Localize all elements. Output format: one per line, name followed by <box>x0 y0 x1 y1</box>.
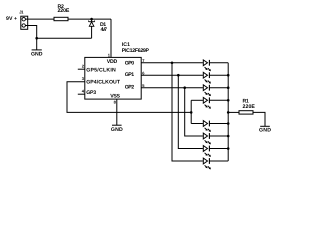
svg-text:GP5/CLKIN: GP5/CLKIN <box>86 67 116 73</box>
svg-text:VSS: VSS <box>110 94 120 100</box>
svg-text:220E: 220E <box>243 104 256 110</box>
svg-text:GND: GND <box>111 127 123 133</box>
svg-text:9V +: 9V + <box>6 16 17 22</box>
svg-text:4V7: 4V7 <box>101 27 108 33</box>
svg-text:GND: GND <box>31 51 43 57</box>
svg-text:GP1: GP1 <box>125 72 134 78</box>
svg-text:GP2: GP2 <box>125 85 134 91</box>
svg-text:J1: J1 <box>19 9 24 14</box>
svg-text:220E: 220E <box>58 8 70 14</box>
svg-text:GP4/CLKOUT: GP4/CLKOUT <box>86 79 121 85</box>
svg-text:GP0: GP0 <box>125 61 134 67</box>
svg-text:VDD: VDD <box>107 59 118 65</box>
svg-text:GP3: GP3 <box>86 90 96 96</box>
svg-text:IC1: IC1 <box>122 42 130 48</box>
svg-text:GND: GND <box>259 128 271 134</box>
svg-text:PIC12F629P: PIC12F629P <box>122 48 150 54</box>
